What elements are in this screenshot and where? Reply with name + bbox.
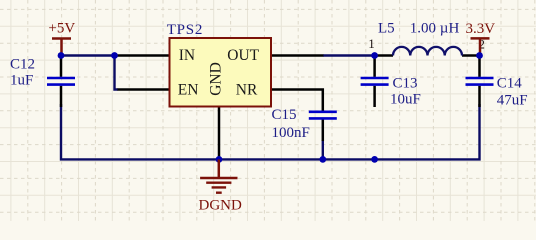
wire from C15 bottom to ground bus (322, 140, 324, 159)
svg-text:47uF: 47uF (497, 93, 528, 109)
svg-text:+5V: +5V (48, 21, 75, 37)
svg-text:IN: IN (179, 47, 195, 64)
svg-text:10uF: 10uF (390, 92, 421, 108)
node C15 on bus (319, 156, 326, 163)
pin GND of regulator TPS2 (218, 107, 221, 160)
svg-text:3.3V: 3.3V (466, 21, 496, 37)
svg-text:NR: NR (236, 82, 258, 99)
capacitor C15 plates (309, 112, 337, 119)
pin EN of regulator TPS2 (118, 88, 170, 91)
node C13 on bus (371, 156, 378, 163)
capacitor C12 pins (60, 56, 63, 108)
inductor L5 pins (375, 54, 480, 57)
capacitor C14 plates (466, 78, 494, 85)
capacitor C13 plates (361, 78, 389, 85)
svg-text:100nF: 100nF (272, 125, 310, 141)
svg-text:1uF: 1uF (10, 73, 33, 89)
power port +5V (48, 21, 75, 55)
regulator TPS2 body (170, 38, 272, 107)
wire from OUT pin to L5 node (323, 54, 375, 56)
svg-text:C13: C13 (393, 76, 418, 92)
capacitor C12 plates (47, 78, 75, 85)
capacitor C15 pins (322, 120, 325, 142)
svg-text:GND: GND (207, 62, 224, 96)
svg-text:L5: L5 (378, 20, 395, 36)
node +5V/C12/wire junction (58, 52, 65, 59)
capacitor C14 pins (478, 56, 481, 108)
svg-text:DGND: DGND (199, 197, 242, 213)
svg-text:C15: C15 (272, 107, 297, 123)
svg-text:OUT: OUT (227, 47, 259, 64)
power port 3.3V (466, 21, 496, 55)
svg-text:1.00 µH: 1.00 µH (410, 20, 460, 36)
svg-text:C14: C14 (497, 75, 523, 91)
node L5/C14/3.3V junction (476, 52, 483, 59)
svg-text:C12: C12 (10, 57, 35, 73)
ground DGND (199, 159, 242, 213)
pin IN of regulator TPS2 (118, 54, 170, 57)
pin OUT of regulator TPS2 (271, 54, 323, 57)
capacitor C13 pins (373, 56, 376, 108)
node GND pin on bus (216, 156, 223, 163)
wire ground bus along bottom (61, 104, 480, 159)
svg-text:TPS2: TPS2 (167, 22, 204, 38)
node IN/EN junction (111, 52, 118, 59)
wire from +5V node to regulator input junction (61, 54, 115, 56)
wire from input junction down to EN pin (115, 54, 119, 89)
pin NR of regulator TPS2 (271, 90, 323, 112)
svg-text:EN: EN (178, 82, 199, 99)
svg-text:1: 1 (368, 36, 375, 51)
inductor L5 body (393, 47, 462, 56)
node OUT/C13/L5 junction (371, 52, 378, 59)
